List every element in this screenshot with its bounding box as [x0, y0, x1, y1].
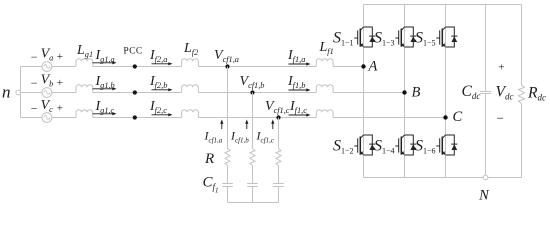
wire Rdc branch upper — [521, 5, 523, 86]
capacitor Cf1 phase c — [273, 184, 284, 187]
svg-text:PCC: PCC — [123, 47, 142, 57]
label Icf1,c — [256, 129, 275, 145]
inductor Lg1 phase b — [76, 85, 93, 93]
wire inverter leg 2 — [404, 5, 406, 178]
wire Cdc branch lower — [485, 94, 487, 178]
svg-text:Icf1,a: Icf1,a — [204, 129, 223, 145]
wire DC bottom rail — [364, 177, 522, 179]
current arrow If2,b — [152, 88, 173, 91]
svg-text:S1−2: S1−2 — [333, 138, 354, 156]
wire Lg1 to Lf2 phase a — [93, 66, 182, 68]
svg-text:Va: Va — [41, 47, 54, 63]
wire phase a bus to source — [21, 66, 43, 68]
label If2,b — [149, 74, 167, 90]
wire Lf2 to Lf1 phase c — [198, 117, 316, 119]
wire capacitor to rail phase b — [252, 187, 254, 203]
node n terminal — [2, 83, 21, 102]
label Icf1,a — [204, 129, 223, 145]
inductor Lf2 phase a — [182, 59, 199, 67]
svg-text:S1−3: S1−3 — [374, 30, 395, 48]
svg-text:+: + — [57, 51, 63, 63]
label - Vb + — [31, 73, 63, 90]
label Lf1 — [319, 40, 334, 56]
wire Lg1 to Lf2 phase b — [93, 92, 182, 94]
wire Lf1 to node B — [333, 92, 404, 94]
resistor Rdc — [519, 85, 525, 104]
svg-text:Ig1,a: Ig1,a — [95, 48, 115, 64]
svg-text:Vc: Vc — [41, 98, 54, 114]
voltage source Va — [42, 62, 52, 72]
inductor Lf1 phase c — [316, 110, 333, 118]
node N — [478, 175, 490, 203]
wire resistor to capacitor phase b — [252, 166, 254, 184]
wire source to Lg1 phase c — [52, 117, 77, 119]
label Rdc — [527, 85, 546, 103]
transistor S1-1 — [333, 27, 375, 48]
label Icf1,b — [230, 129, 249, 145]
wire Cdc branch upper — [485, 5, 487, 92]
transistor S1-4 — [374, 135, 416, 156]
label Vdc plus — [498, 61, 504, 73]
svg-text:Vcf1,b: Vcf1,b — [240, 74, 265, 90]
label Vcf1,c — [265, 99, 290, 115]
wire phase c bus to source — [21, 117, 43, 119]
transistor S1-3 — [374, 27, 416, 48]
svg-text:N: N — [478, 188, 490, 204]
voltage source Vb — [42, 88, 52, 98]
wire Lg1 to Lf2 phase c — [93, 117, 182, 119]
wire Vcf1,a down to resistor — [227, 67, 229, 149]
current arrow Icf1,a — [220, 120, 223, 130]
label Ig1,c — [95, 99, 115, 115]
transistor S1-6 — [415, 135, 457, 156]
svg-text:S1−4: S1−4 — [374, 138, 395, 156]
label Vdc — [496, 84, 514, 102]
svg-text:+: + — [57, 77, 63, 89]
svg-text:Cf1: Cf1 — [203, 175, 219, 195]
svg-text:Cdc: Cdc — [462, 83, 481, 101]
node B — [402, 85, 420, 101]
capacitor Cdc — [480, 92, 491, 94]
label If2,a — [149, 48, 167, 64]
svg-text:Icf1,b: Icf1,b — [230, 129, 249, 145]
wire inverter leg 3 — [445, 5, 447, 178]
svg-text:If1,a: If1,a — [287, 48, 305, 64]
label - Va + — [31, 47, 63, 64]
label Lg1 — [76, 43, 93, 59]
svg-text:Icf1,c: Icf1,c — [256, 129, 275, 145]
svg-text:Vcf1,a: Vcf1,a — [214, 48, 239, 64]
node Vcf1,c — [276, 115, 280, 119]
node Vcf1,a — [225, 64, 229, 68]
wire phase b bus to source — [21, 92, 43, 94]
capacitor Cf1 phase b — [247, 184, 258, 187]
label Ig1,b — [95, 74, 115, 90]
current arrow Icf1,c — [271, 120, 274, 130]
label Ig1,a — [95, 48, 115, 64]
node C — [443, 109, 462, 125]
svg-text:Lf2: Lf2 — [183, 41, 198, 57]
svg-text:If2,c: If2,c — [149, 99, 167, 115]
inductor Lg1 phase a — [76, 59, 93, 67]
svg-text:Ig1,b: Ig1,b — [95, 74, 115, 90]
svg-text:−: − — [31, 101, 38, 115]
current arrow Ig1,c — [93, 112, 117, 115]
label Cdc — [462, 83, 481, 101]
svg-text:Lf1: Lf1 — [319, 40, 334, 56]
node A — [361, 59, 377, 75]
inductor Lf1 phase a — [316, 59, 333, 67]
voltage source Vc — [42, 113, 52, 123]
node PCC phase c — [133, 115, 137, 119]
wire capacitor to rail phase a — [227, 187, 229, 203]
svg-text:+: + — [498, 61, 504, 73]
current arrow Ig1,a — [93, 61, 117, 64]
wire Vcf1,c down to resistor — [278, 118, 280, 149]
current arrow If2,c — [152, 113, 173, 116]
wire inverter leg 1 — [363, 5, 365, 178]
capacitor Cf1 phase a — [222, 184, 233, 187]
label Vdc minus — [497, 111, 504, 126]
svg-text:A: A — [368, 59, 378, 75]
svg-text:Ig1,c: Ig1,c — [95, 99, 115, 115]
svg-text:+: + — [57, 103, 63, 115]
current arrow If2,a — [152, 62, 173, 65]
current arrow If1,b — [289, 88, 311, 91]
svg-text:S1−6: S1−6 — [415, 138, 436, 156]
label If2,c — [149, 99, 167, 115]
node PCC phase b — [133, 90, 137, 94]
wire resistor to capacitor phase a — [227, 166, 229, 184]
label Vcf1,a — [214, 48, 239, 64]
wire capacitor to rail phase c — [278, 187, 280, 203]
svg-text:Vdc: Vdc — [496, 84, 514, 102]
wire Rdc branch lower — [521, 104, 523, 178]
resistor R phase b — [250, 149, 255, 166]
svg-text:S1−5: S1−5 — [415, 30, 436, 48]
wire Lf1 to node C — [333, 117, 445, 119]
transistor S1-2 — [333, 135, 375, 156]
label Lf2 — [183, 41, 198, 57]
resistor R phase c — [276, 149, 281, 166]
label Cf1 — [203, 175, 219, 195]
wire Vcf1,b down to resistor — [252, 93, 254, 149]
inductor Lf2 phase c — [182, 110, 199, 118]
wire capacitor common rail — [228, 202, 279, 204]
svg-text:S1−1: S1−1 — [333, 30, 354, 48]
svg-text:If2,b: If2,b — [149, 74, 167, 90]
label R — [204, 151, 214, 167]
svg-text:Rdc: Rdc — [527, 85, 546, 103]
label PCC — [123, 47, 142, 57]
svg-text:−: − — [497, 111, 504, 126]
wire resistor to capacitor phase c — [278, 166, 280, 184]
wire Lf1 to node A — [333, 66, 363, 68]
svg-text:If2,a: If2,a — [149, 48, 167, 64]
svg-text:Lg1: Lg1 — [76, 43, 93, 59]
transistor S1-5 — [415, 27, 457, 48]
svg-text:−: − — [31, 76, 38, 90]
current arrow If1,a — [289, 62, 311, 65]
label If1,a — [287, 48, 305, 64]
node PCC phase a — [133, 64, 137, 68]
label - Vc + — [31, 98, 63, 115]
svg-text:C: C — [453, 109, 463, 125]
svg-text:R: R — [204, 151, 214, 167]
svg-text:n: n — [2, 83, 11, 102]
svg-text:Vb: Vb — [41, 73, 54, 89]
label If1,c — [289, 99, 307, 115]
label Vcf1,b — [240, 74, 265, 90]
inductor Lg1 phase c — [76, 110, 93, 118]
label If1,b — [287, 74, 305, 90]
inductor Lf2 phase b — [182, 85, 199, 93]
wire Lf2 to Lf1 phase b — [198, 92, 316, 94]
wire source to Lg1 phase b — [52, 92, 77, 94]
svg-text:B: B — [412, 85, 421, 101]
current arrow Ig1,b — [93, 87, 117, 90]
inductor Lf1 phase b — [316, 85, 333, 93]
resistor R phase a — [225, 149, 230, 166]
node Vcf1,b — [250, 90, 254, 94]
svg-text:Vcf1,c: Vcf1,c — [265, 99, 290, 115]
current arrow Icf1,b — [245, 120, 248, 130]
wire neutral bus — [20, 67, 22, 118]
svg-text:−: − — [31, 50, 38, 64]
current arrow If1,c — [289, 113, 311, 116]
wire DC top rail — [364, 4, 522, 6]
svg-text:If1,b: If1,b — [287, 74, 305, 90]
svg-text:If1,c: If1,c — [289, 99, 307, 115]
wire source to Lg1 phase a — [52, 66, 77, 68]
wire Lf2 to Lf1 phase a — [198, 66, 316, 68]
